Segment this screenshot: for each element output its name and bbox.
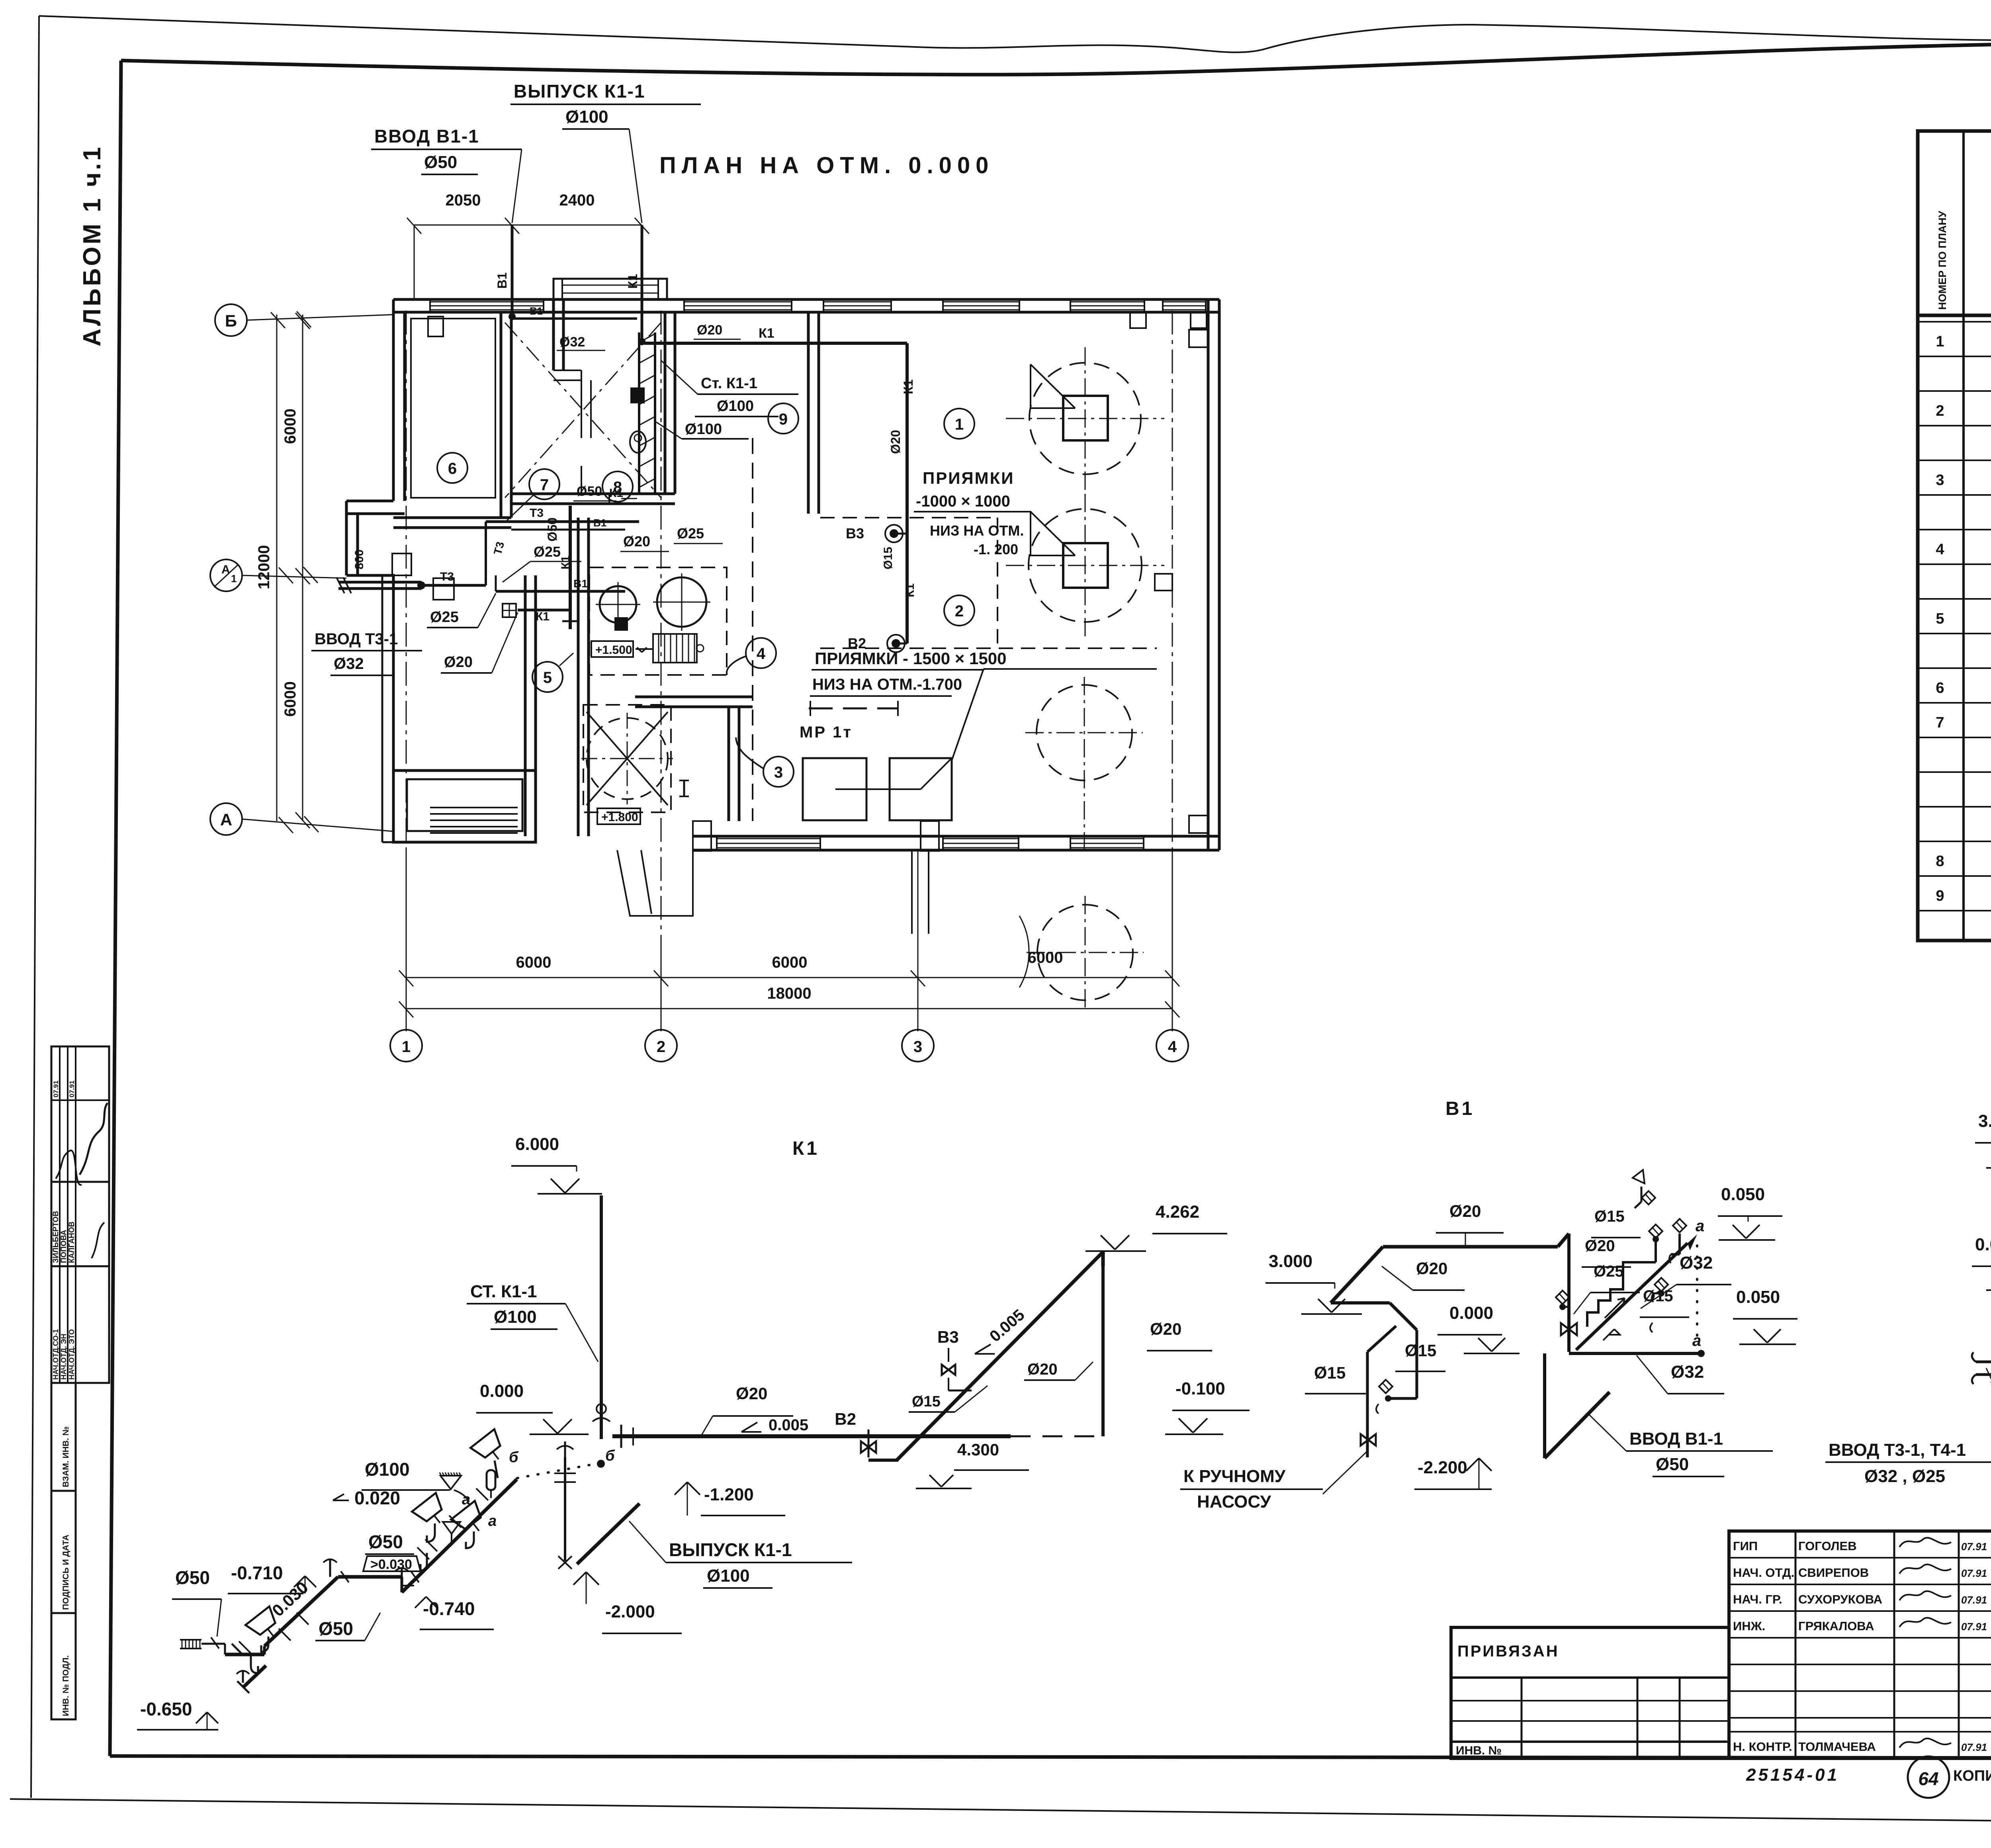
svg-text:-0.710: -0.710 bbox=[231, 1562, 283, 1583]
partition room6 right bbox=[500, 312, 503, 518]
stamp outer bbox=[51, 1046, 109, 1383]
K1 casc cleanout C bbox=[329, 1559, 331, 1577]
B1 main top bbox=[1383, 1245, 1558, 1249]
top wall pier B bbox=[1191, 312, 1207, 328]
pit diag edge bbox=[952, 669, 984, 761]
svg-text:7: 7 bbox=[540, 476, 549, 494]
privyazan box bbox=[1451, 1627, 1729, 1758]
svg-text:ЗИЛЬБЕРТОВ: ЗИЛЬБЕРТОВ bbox=[52, 1211, 60, 1263]
room4 tanks bbox=[600, 586, 636, 623]
svg-text:07.91: 07.91 bbox=[1961, 1541, 1987, 1553]
table col line 1 bbox=[1962, 131, 1965, 941]
axis circle 2 bbox=[645, 1030, 677, 1062]
stamp signatures bbox=[80, 1103, 108, 1175]
svg-text:0.005: 0.005 bbox=[769, 1416, 808, 1434]
pipe K1 hall vert bbox=[906, 343, 909, 643]
top wall window L bbox=[430, 301, 544, 303]
B1 faucet mid bbox=[1655, 1278, 1668, 1291]
T3 curls left bbox=[1972, 1352, 1976, 1362]
svg-text:Ø32: Ø32 bbox=[1680, 1253, 1713, 1273]
B1 faucet left bbox=[1556, 1291, 1569, 1304]
axis circle 3 bbox=[902, 1030, 934, 1062]
center block right wall bbox=[728, 707, 730, 821]
svg-text:12000: 12000 bbox=[255, 545, 273, 589]
partition vestibule L bbox=[552, 299, 555, 370]
dim top line bbox=[414, 225, 642, 226]
pipe B1 horiz bbox=[512, 317, 637, 320]
bl block body bbox=[393, 770, 536, 842]
svg-text:Ø32: Ø32 bbox=[1671, 1362, 1704, 1382]
svg-text:0.050: 0.050 bbox=[1736, 1287, 1780, 1307]
svg-text:ИНЖ.: ИНЖ. bbox=[1733, 1619, 1765, 1633]
K1 diagonal bbox=[897, 1252, 1103, 1460]
bottom wall window 3 bbox=[1070, 838, 1144, 839]
svg-text:2: 2 bbox=[955, 602, 964, 620]
room6 inner lines bbox=[411, 319, 495, 498]
K1 stack bbox=[600, 1195, 603, 1439]
svg-text:1: 1 bbox=[231, 573, 237, 585]
sheet edge bottom bbox=[10, 1799, 1991, 1827]
svg-text:НАСОСУ: НАСОСУ bbox=[1197, 1492, 1271, 1512]
svg-text:К1: К1 bbox=[536, 610, 550, 623]
K1 casc standpipe bbox=[487, 1470, 495, 1490]
svg-text:НАЧ.ОТД. ЭН: НАЧ.ОТД. ЭН bbox=[60, 1334, 68, 1380]
svg-text:18000: 18000 bbox=[767, 985, 811, 1002]
svg-text:4: 4 bbox=[1168, 1038, 1177, 1056]
washroom mid walls bbox=[553, 370, 581, 371]
bl block left wall bbox=[392, 575, 395, 842]
K1 horiz dashed bbox=[1011, 1435, 1103, 1437]
svg-text:К1: К1 bbox=[792, 1138, 819, 1159]
pipe K1 low bbox=[518, 609, 570, 612]
svg-text:а: а bbox=[1696, 1217, 1704, 1235]
svg-text:ВЗАМ. ИНВ. №: ВЗАМ. ИНВ. № bbox=[61, 1426, 70, 1487]
svg-text:К1: К1 bbox=[901, 379, 915, 394]
B1 riser2 bbox=[1655, 1239, 1657, 1262]
frame bottom bbox=[110, 1756, 1991, 1758]
B1 d32 diag bbox=[1576, 1243, 1688, 1350]
svg-text:0.005: 0.005 bbox=[986, 1306, 1028, 1345]
room circle 6 bbox=[437, 453, 467, 483]
B1 low horiz bbox=[1569, 1352, 1700, 1355]
dim bottom line2 bbox=[406, 1008, 1172, 1009]
K1 casc sink top bbox=[471, 1429, 511, 1469]
svg-text:6000: 6000 bbox=[772, 954, 808, 971]
svg-text:Ø50: Ø50 bbox=[424, 153, 457, 172]
svg-text:ВВОД В1-1: ВВОД В1-1 bbox=[374, 126, 479, 147]
pipe K1 center vert bbox=[569, 506, 572, 629]
vent dashed box bbox=[583, 705, 671, 812]
small black sq bbox=[615, 618, 627, 630]
washroom door bbox=[608, 494, 610, 504]
K1 casc funnel a bbox=[443, 1522, 460, 1534]
svg-text:СВИРЕПОВ: СВИРЕПОВ bbox=[1798, 1566, 1869, 1580]
svg-text:Ø15: Ø15 bbox=[882, 547, 895, 569]
tank 3 bbox=[1037, 685, 1132, 780]
svg-text:ПРИЯМКИ: ПРИЯМКИ bbox=[923, 469, 1014, 487]
svg-text:Ø20: Ø20 bbox=[1150, 1320, 1181, 1338]
signoff outer bbox=[1729, 1531, 1991, 1758]
svg-text:В1: В1 bbox=[530, 305, 543, 317]
signoff verticals bbox=[1795, 1531, 1797, 1758]
svg-text:+1.500: +1.500 bbox=[595, 643, 632, 657]
axis circle A bbox=[210, 803, 242, 835]
left wing step bbox=[346, 500, 393, 503]
svg-text:-0.100: -0.100 bbox=[1175, 1379, 1225, 1398]
K1 casc sink a1 bbox=[412, 1493, 452, 1532]
bottom wall lines bbox=[693, 835, 1219, 838]
B2 tap bbox=[892, 639, 900, 648]
B1 riser stair bbox=[1587, 1262, 1656, 1327]
top wall window R bbox=[1163, 301, 1206, 303]
svg-text:НОМЕР ПО ПЛАНУ: НОМЕР ПО ПЛАНУ bbox=[1936, 210, 1948, 310]
svg-text:07.91: 07.91 bbox=[1961, 1741, 1987, 1753]
K1 casc sink a2 bbox=[451, 1501, 491, 1540]
table header bottom bbox=[1918, 314, 1991, 317]
table row lines bbox=[1918, 356, 1991, 357]
svg-text:4.262: 4.262 bbox=[1156, 1202, 1199, 1222]
B1 zig diag bbox=[1390, 1303, 1417, 1330]
svg-text:К1: К1 bbox=[626, 274, 640, 289]
tank 1 bbox=[1029, 363, 1141, 474]
top wall window 2 bbox=[823, 301, 891, 303]
table outer box bbox=[1918, 131, 1991, 941]
svg-text:б: б bbox=[509, 1449, 519, 1466]
pit dashed 1 bbox=[820, 517, 997, 518]
svg-text:Ø50: Ø50 bbox=[368, 1531, 403, 1552]
svg-text:6000: 6000 bbox=[516, 954, 552, 971]
axis line A bbox=[242, 819, 394, 831]
axis circle 4 bbox=[1156, 1030, 1188, 1062]
svg-text:07.91: 07.91 bbox=[52, 1080, 60, 1097]
B1 main tail bbox=[1331, 1247, 1383, 1303]
K1 low step bbox=[868, 1459, 898, 1462]
svg-text:В1: В1 bbox=[593, 517, 606, 529]
K1 casc cleanout C2 bbox=[401, 1568, 403, 1577]
svg-text:9: 9 bbox=[779, 411, 788, 428]
svg-text:4: 4 bbox=[1936, 541, 1944, 558]
svg-text:0.050: 0.050 bbox=[1721, 1185, 1765, 1204]
svg-text:ПЛАН НА ОТМ. 0.000: ПЛАН НА ОТМ. 0.000 bbox=[659, 153, 994, 178]
K1 vypusk diag bbox=[577, 1504, 640, 1564]
svg-text:2050: 2050 bbox=[446, 192, 481, 209]
svg-text:В2: В2 bbox=[835, 1410, 856, 1428]
room circle 9 bbox=[768, 403, 798, 434]
center block left wall bbox=[577, 518, 580, 836]
svg-text:ТОЛМАЧЕВА: ТОЛМАЧЕВА bbox=[1798, 1740, 1876, 1754]
wing pier bbox=[392, 553, 411, 575]
svg-text:Ø25: Ø25 bbox=[677, 525, 704, 542]
B1 pump leader bbox=[1323, 1451, 1367, 1494]
room circle 2 bbox=[944, 595, 974, 626]
axis dashdot lines bbox=[406, 311, 407, 962]
stamp cell ПОДПИСЬ bbox=[51, 1491, 76, 1613]
svg-text:В3: В3 bbox=[846, 525, 864, 542]
K1 casc grate bbox=[182, 1640, 183, 1649]
K1 casc horiz A bbox=[225, 1653, 264, 1656]
svg-text:Ø100: Ø100 bbox=[565, 107, 608, 127]
svg-text:К1: К1 bbox=[759, 326, 774, 341]
B1 faucet top1 bbox=[1642, 1191, 1655, 1205]
svg-text:Т3: Т3 bbox=[440, 570, 454, 583]
svg-text:В1: В1 bbox=[573, 577, 588, 590]
svg-text:Ø20: Ø20 bbox=[888, 430, 903, 454]
K1 drop vert bbox=[564, 1457, 566, 1561]
svg-text:МР 1т: МР 1т bbox=[800, 724, 853, 741]
svg-text:НАЧ.ОТД. ЭТО: НАЧ.ОТД. ЭТО bbox=[68, 1329, 76, 1380]
B1 valve main bbox=[1561, 1323, 1577, 1335]
svg-text:Ø100: Ø100 bbox=[707, 1566, 750, 1586]
svg-text:07.91: 07.91 bbox=[1961, 1594, 1987, 1606]
K1 wall sym bbox=[503, 604, 516, 617]
svg-text:В1: В1 bbox=[495, 272, 509, 289]
exit pit bbox=[617, 850, 693, 916]
B1 peak bbox=[1558, 1234, 1569, 1247]
svg-text:СТ. К1-1: СТ. К1-1 bbox=[470, 1282, 537, 1301]
sheet edge left bbox=[31, 16, 39, 1798]
tank 2 corner bbox=[1031, 512, 1075, 555]
B1 aa dotted bbox=[1696, 1246, 1698, 1341]
svg-text:Ø20: Ø20 bbox=[1027, 1361, 1058, 1378]
tank 2 bbox=[1029, 509, 1142, 622]
mark I bbox=[683, 780, 685, 796]
box +1.800 bbox=[597, 808, 640, 824]
svg-text:Ø15: Ø15 bbox=[1594, 1208, 1625, 1225]
svg-text:Ø32 , Ø25: Ø32 , Ø25 bbox=[1864, 1467, 1945, 1486]
svg-text:Ø15: Ø15 bbox=[1643, 1287, 1673, 1305]
room circle 1 bbox=[944, 409, 974, 439]
B1 vvod diag bbox=[1545, 1392, 1610, 1458]
pit drop lines bbox=[911, 850, 913, 934]
K1 casc diag B bbox=[321, 1577, 371, 1589]
svg-text:1: 1 bbox=[1936, 333, 1944, 350]
svg-text:6: 6 bbox=[448, 460, 457, 477]
room4 dashed box bbox=[589, 567, 727, 675]
svg-text:2400: 2400 bbox=[559, 192, 595, 209]
svg-text:а: а bbox=[1692, 1332, 1701, 1349]
K1 main horiz bbox=[612, 1434, 1011, 1438]
room6 bottom wall bbox=[393, 516, 511, 519]
pit dashed 2 bbox=[820, 647, 1157, 649]
stamp grid verticals bbox=[59, 1046, 61, 1383]
svg-text:В3: В3 bbox=[937, 1328, 959, 1346]
svg-text:8: 8 bbox=[1936, 853, 1944, 870]
B1 faucet R bbox=[1379, 1380, 1393, 1393]
bottom wall window 1 bbox=[717, 838, 820, 839]
svg-text:К РУЧНОМУ: К РУЧНОМУ bbox=[1183, 1467, 1286, 1486]
svg-text:ГОГОЛЕВ: ГОГОЛЕВ bbox=[1798, 1539, 1857, 1553]
svg-text:5: 5 bbox=[543, 669, 552, 686]
left wall bbox=[392, 299, 395, 501]
B1 twin vert R bbox=[1416, 1330, 1418, 1398]
dim vert outer bbox=[276, 315, 278, 821]
center partition under stairs bbox=[635, 696, 753, 698]
K1 right vert bbox=[1101, 1252, 1105, 1436]
T3 entry hatches bbox=[336, 577, 344, 593]
svg-text:Ø20: Ø20 bbox=[623, 533, 650, 550]
svg-text:Ø20: Ø20 bbox=[1416, 1259, 1447, 1278]
svg-text:4.300: 4.300 bbox=[957, 1440, 999, 1459]
K1 casc trap low bbox=[251, 1654, 258, 1673]
sheet edge top bbox=[39, 16, 1991, 52]
svg-text:ВЫПУСК К1-1: ВЫПУСК К1-1 bbox=[514, 81, 645, 102]
vestibule protrusion bbox=[553, 279, 667, 299]
svg-text:ИНВ. № ПОДЛ.: ИНВ. № ПОДЛ. bbox=[61, 1655, 70, 1716]
B1 main vert bbox=[1567, 1234, 1571, 1352]
svg-text:Ø20: Ø20 bbox=[444, 654, 473, 671]
room circle 8 bbox=[602, 471, 633, 502]
svg-text:АЛЬБОМ 1 ч.1: АЛЬБОМ 1 ч.1 bbox=[78, 145, 106, 346]
K1 b-b dotted bbox=[517, 1463, 601, 1478]
svg-text:07.91: 07.91 bbox=[1961, 1567, 1987, 1579]
svg-text:Ø25: Ø25 bbox=[430, 609, 459, 626]
B1 stair arrow bbox=[1605, 1298, 1625, 1318]
svg-text:ВВОД Т3-1, Т4-1: ВВОД Т3-1, Т4-1 bbox=[1829, 1440, 1966, 1460]
svg-text:2: 2 bbox=[1936, 403, 1944, 419]
K1 casc diag E bbox=[243, 1656, 276, 1688]
room9 right wall bbox=[807, 312, 810, 514]
svg-text:КАЛГАНОВ: КАЛГАНОВ bbox=[68, 1222, 76, 1263]
room circle 7 bbox=[529, 469, 559, 499]
B1 mid diag bbox=[1367, 1326, 1396, 1352]
bottom wall piers bbox=[693, 821, 711, 851]
svg-text:5: 5 bbox=[1936, 610, 1944, 627]
svg-text:0.000: 0.000 bbox=[1975, 1235, 1991, 1254]
bottom wall window 2 bbox=[943, 838, 1019, 839]
svg-text:0.000: 0.000 bbox=[480, 1381, 524, 1401]
svg-text:Ø100: Ø100 bbox=[717, 398, 754, 415]
privyazan inner lines bbox=[1451, 1676, 1729, 1679]
svg-text:ГРЯКАЛОВА: ГРЯКАЛОВА bbox=[1798, 1619, 1874, 1633]
svg-text:07.91: 07.91 bbox=[1961, 1621, 1987, 1633]
bl room right wall bbox=[524, 575, 527, 836]
pipe K1 top horiz bbox=[644, 342, 907, 345]
axis circle 1 bbox=[390, 1030, 422, 1062]
copy circle 64 bbox=[1908, 1756, 1949, 1798]
svg-text:-0.650: -0.650 bbox=[140, 1699, 192, 1719]
pipe B1 mid bbox=[511, 529, 625, 531]
svg-text:1: 1 bbox=[402, 1038, 411, 1056]
K1 casc ticks A bbox=[232, 1644, 244, 1656]
svg-text:7: 7 bbox=[1936, 714, 1944, 731]
svg-text:А: А bbox=[220, 810, 232, 829]
dim bottom line1 bbox=[406, 977, 1172, 978]
room circle 4 bbox=[746, 638, 776, 668]
pipe T3 upper bbox=[486, 520, 639, 523]
svg-text:4: 4 bbox=[757, 645, 766, 663]
svg-text:Ø15: Ø15 bbox=[912, 1393, 941, 1410]
privyazan cols bbox=[1521, 1678, 1523, 1758]
svg-text:ПРИЯМКИ - 1500 × 1500: ПРИЯМКИ - 1500 × 1500 bbox=[815, 649, 1006, 668]
svg-text:Ø50: Ø50 bbox=[1656, 1455, 1689, 1474]
K1 cleanout tee bbox=[564, 1441, 566, 1457]
svg-text:3: 3 bbox=[774, 764, 783, 781]
svg-text:3.000: 3.000 bbox=[1978, 1111, 1991, 1131]
svg-text:Ø20: Ø20 bbox=[736, 1384, 767, 1403]
top wall window 3 bbox=[943, 301, 1019, 303]
svg-text:-1.200: -1.200 bbox=[704, 1485, 754, 1504]
pier below A1 bbox=[433, 578, 454, 600]
dim vert inner bbox=[302, 315, 303, 821]
vent circle bbox=[587, 718, 668, 799]
svg-text:8: 8 bbox=[613, 479, 622, 496]
svg-text:а: а bbox=[488, 1513, 497, 1529]
partition washroom R bbox=[664, 312, 667, 494]
svg-text:07.91: 07.91 bbox=[68, 1080, 76, 1097]
svg-text:ПОДПИСЬ И ДАТА: ПОДПИСЬ И ДАТА bbox=[61, 1535, 70, 1610]
K1 casc 0030 box bbox=[363, 1556, 420, 1571]
svg-text:Ø25: Ø25 bbox=[534, 544, 561, 560]
pipe B1 low bbox=[496, 590, 625, 593]
svg-text:ИНВ. №: ИНВ. № bbox=[1456, 1744, 1502, 1757]
axis line A1 bbox=[242, 575, 346, 578]
frame left bbox=[110, 61, 121, 1756]
svg-text:-1000 × 1000: -1000 × 1000 bbox=[916, 493, 1010, 510]
room circle 5 bbox=[532, 662, 563, 692]
svg-text:800: 800 bbox=[353, 550, 366, 569]
svg-text:НАЧ. ГР.: НАЧ. ГР. bbox=[1733, 1592, 1782, 1606]
vent cross bbox=[587, 712, 668, 805]
small arrow box bbox=[636, 648, 653, 650]
shaft black box bbox=[631, 388, 644, 403]
svg-text:Ø25: Ø25 bbox=[1594, 1263, 1624, 1280]
svg-text:+1.800: +1.800 bbox=[601, 811, 638, 824]
shaft lines bbox=[638, 332, 640, 494]
axis circle A1 bbox=[210, 559, 242, 591]
svg-text:НИЗ НА ОТМ.: НИЗ НА ОТМ. bbox=[930, 522, 1024, 539]
axis line Б bbox=[247, 315, 394, 320]
svg-text:6: 6 bbox=[1936, 680, 1944, 696]
washroom bottom wall bbox=[511, 493, 675, 495]
svg-text:ВВОД В1-1: ВВОД В1-1 bbox=[1629, 1429, 1723, 1449]
B1 long vert bbox=[1366, 1352, 1369, 1457]
B1 vent tri bbox=[1641, 1187, 1643, 1202]
mr squares bbox=[803, 758, 866, 820]
svg-text:6000: 6000 bbox=[282, 409, 299, 444]
tank 4 bbox=[1037, 905, 1133, 1000]
svg-text:К1: К1 bbox=[559, 555, 572, 569]
K1 casc diag D ticks bbox=[417, 1547, 429, 1559]
svg-text:Ø20: Ø20 bbox=[1585, 1237, 1615, 1255]
svg-text:2: 2 bbox=[657, 1038, 665, 1056]
svg-text:Ст. К1-1: Ст. К1-1 bbox=[701, 375, 757, 392]
svg-text:К1: К1 bbox=[904, 583, 917, 597]
svg-text:0.000: 0.000 bbox=[1449, 1303, 1493, 1323]
svg-text:6.000: 6.000 bbox=[515, 1134, 559, 1154]
svg-text:Ø100: Ø100 bbox=[494, 1307, 537, 1327]
svg-text:>0.030: >0.030 bbox=[370, 1557, 412, 1572]
svg-text:Ø100: Ø100 bbox=[685, 421, 722, 438]
B1 riser3 bbox=[1678, 1234, 1681, 1254]
shaft hatch bbox=[639, 334, 655, 342]
svg-text:Ø32: Ø32 bbox=[559, 334, 585, 350]
svg-text:6000: 6000 bbox=[282, 681, 299, 717]
top wall pier A bbox=[1130, 312, 1146, 328]
K1 casc trap mid bbox=[420, 1553, 427, 1570]
right wall bbox=[1207, 299, 1210, 850]
dim top guides bbox=[414, 225, 415, 299]
mr dash line bbox=[809, 708, 898, 710]
B1 vvod vert bbox=[1543, 1353, 1546, 1458]
K1 casc cleanout E bbox=[242, 1671, 244, 1683]
svg-text:Ø50: Ø50 bbox=[577, 484, 602, 499]
K1 casc sink B bbox=[246, 1606, 286, 1646]
stamp cell ИНВ bbox=[51, 1613, 76, 1719]
right wall tab bbox=[1155, 574, 1172, 591]
tank 1 corner bbox=[1031, 364, 1075, 408]
toilet bbox=[630, 431, 646, 453]
svg-text:1: 1 bbox=[955, 416, 964, 433]
